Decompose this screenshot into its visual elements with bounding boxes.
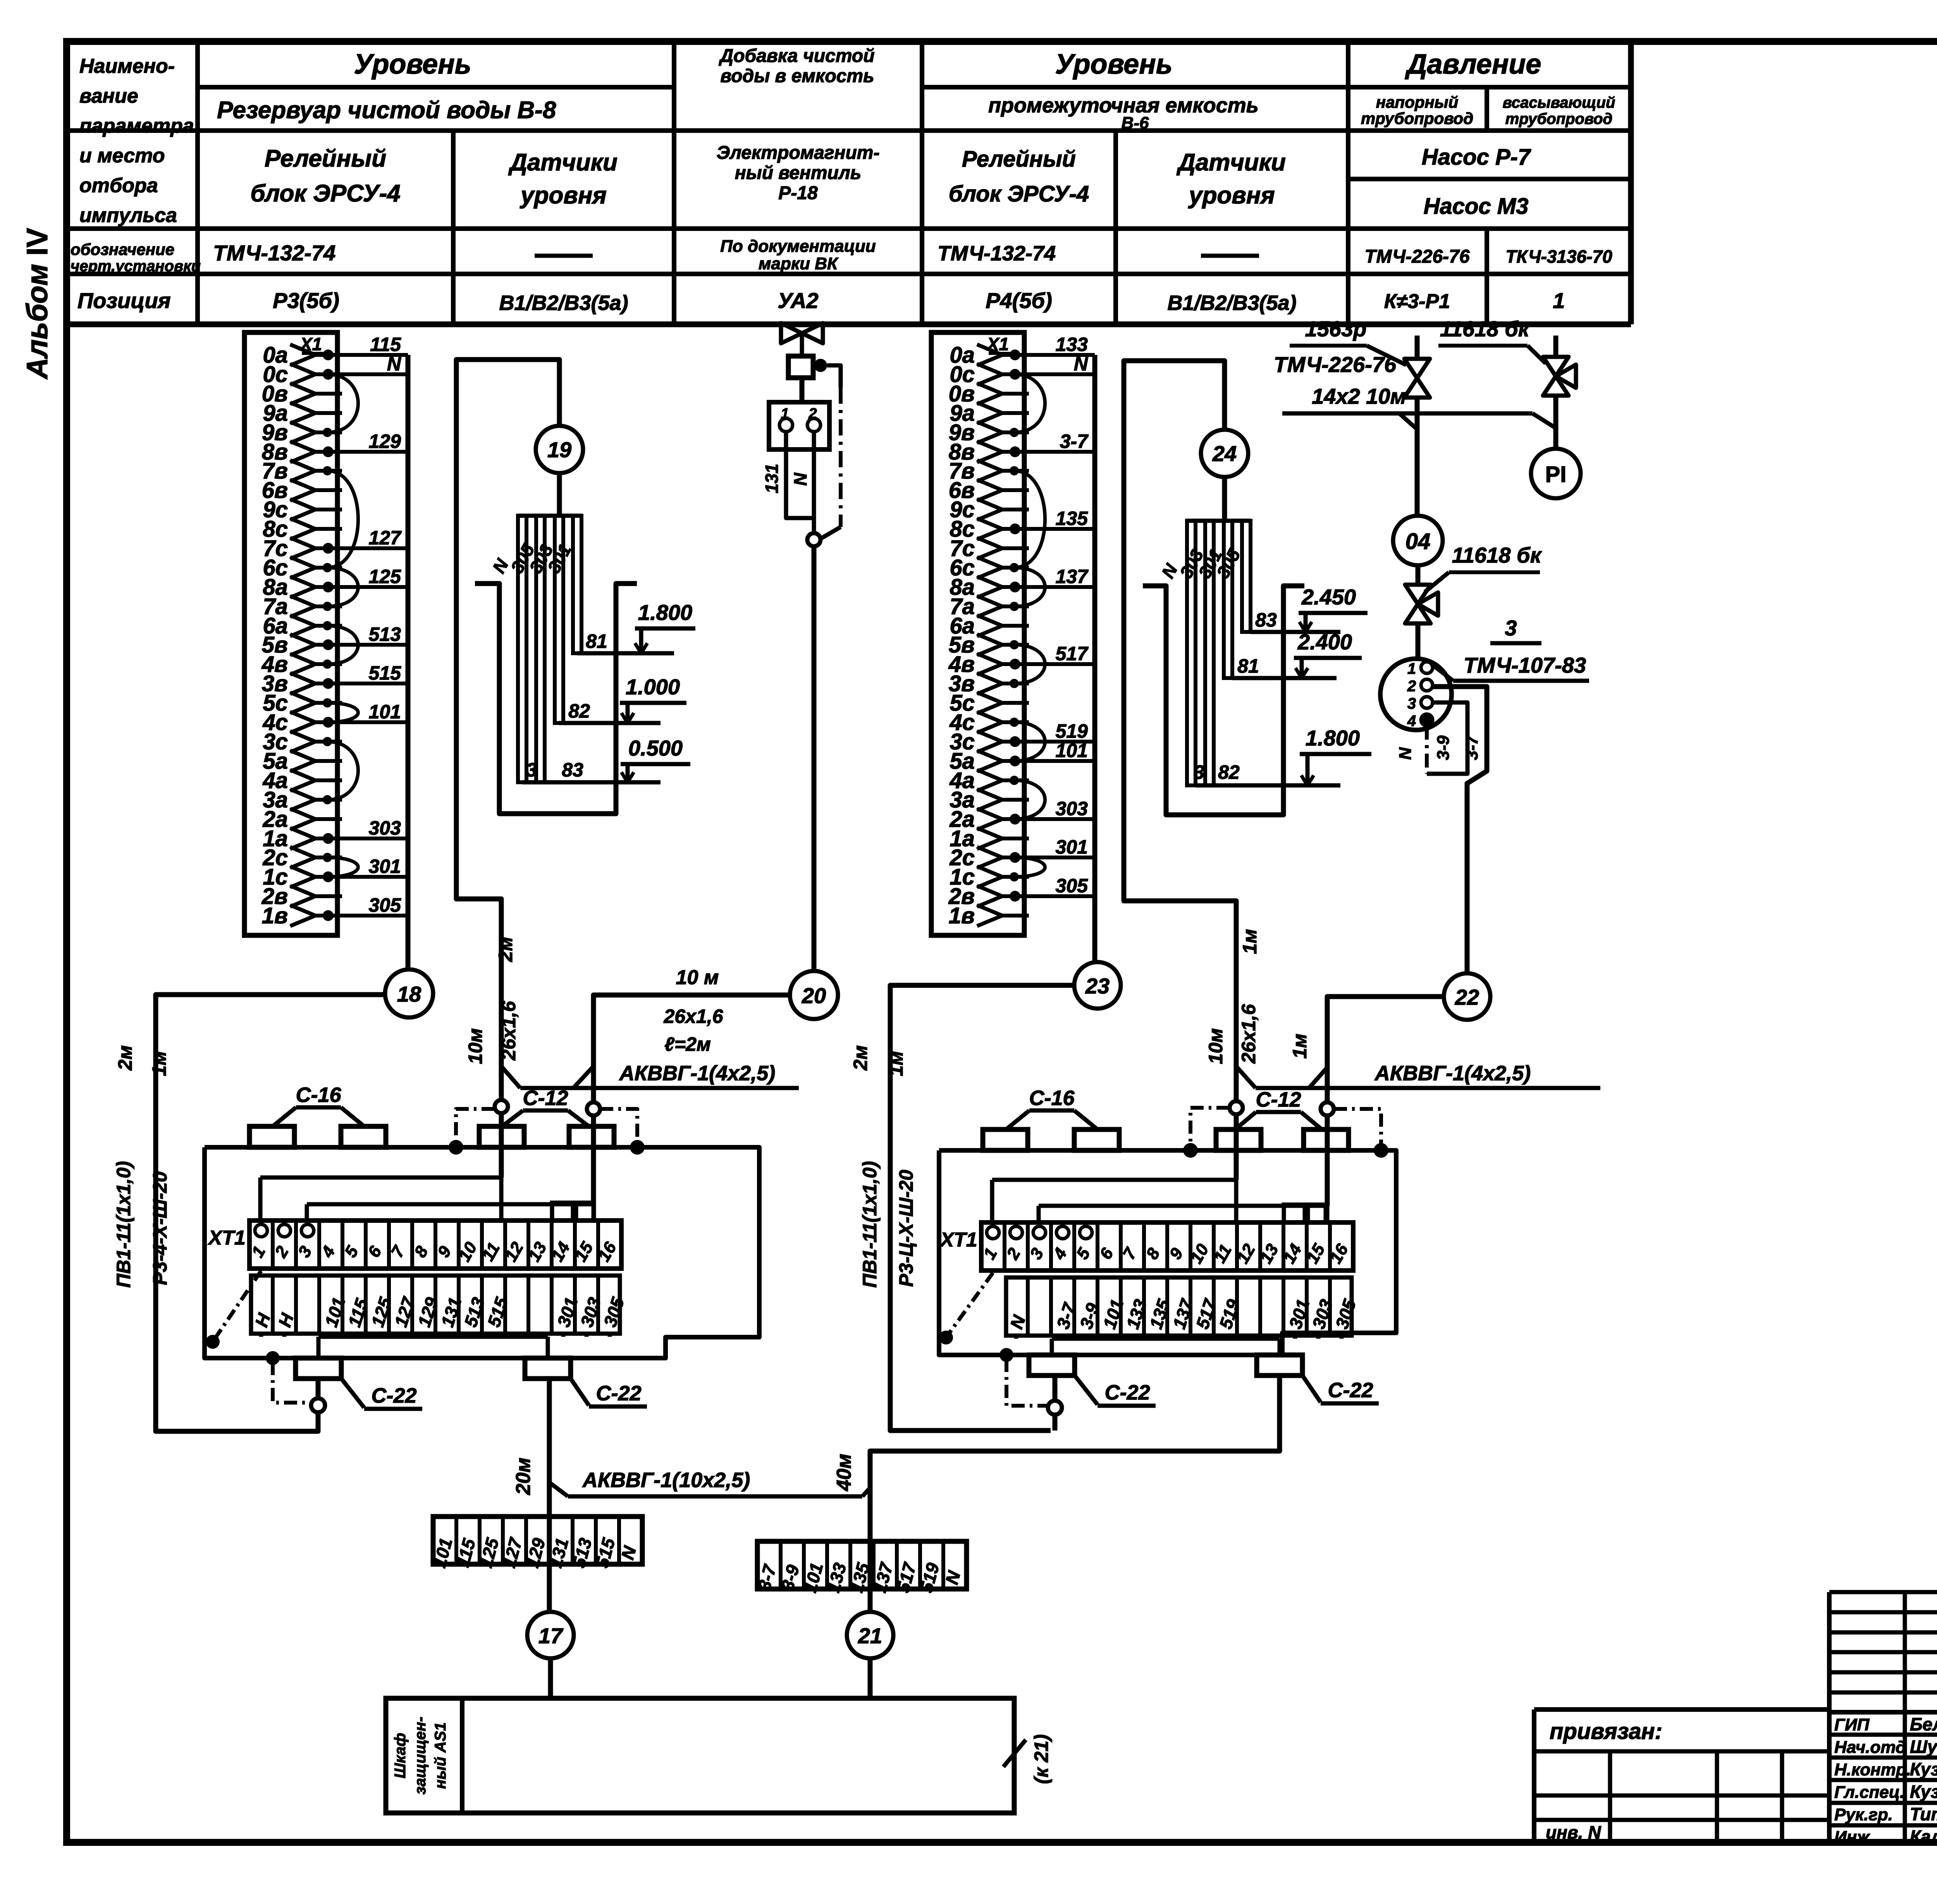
svg-text:26х1,6: 26х1,6 xyxy=(498,1000,520,1060)
cable АКВВГ-1(10х2,5) between groups xyxy=(549,1482,568,1496)
assembly XT4 enclosure outline xyxy=(205,1147,759,1358)
svg-text:ПВ1-11(1х1,0): ПВ1-11(1х1,0) xyxy=(859,1161,881,1288)
svg-text:24: 24 xyxy=(1212,441,1237,466)
sensor B-6 drop wire from node 24 xyxy=(1222,477,1227,521)
svg-text:3-7: 3-7 xyxy=(1060,430,1089,452)
svg-text:2: 2 xyxy=(1407,678,1416,695)
assembly XT5 shield dash-dot at bottom xyxy=(999,1348,1013,1362)
svg-text:2.400: 2.400 xyxy=(1297,630,1352,654)
svg-text:уровня: уровня xyxy=(520,182,607,209)
svg-text:АКВВГ-1(4х2,5): АКВВГ-1(4х2,5) xyxy=(1374,1062,1531,1085)
pressure switch item 3 ТМЧ-107-83 xyxy=(1380,659,1452,730)
svg-text:Шунский: Шунский xyxy=(1910,1737,1937,1757)
wire N from pin 4 (dash-dot) xyxy=(1425,726,1429,774)
svg-text:Насос М3: Насос М3 xyxy=(1424,194,1529,219)
svg-text:Р3-Ц-Х-Ш-20: Р3-Ц-Х-Ш-20 xyxy=(895,1170,917,1287)
svg-text:инв. N: инв. N xyxy=(1546,1822,1601,1842)
cabinet AS1 box xyxy=(386,1698,1014,1813)
valve УА2 symbol (bowtie) xyxy=(781,323,802,343)
svg-text:3: 3 xyxy=(1407,695,1416,712)
svg-text:4: 4 xyxy=(1407,713,1416,730)
svg-text:ПВ1-11(1х1,0): ПВ1-11(1х1,0) xyxy=(113,1161,134,1288)
svg-text:82: 82 xyxy=(1218,761,1240,783)
valve УА2 actuator box xyxy=(800,333,804,356)
svg-text:С-16: С-16 xyxy=(296,1083,341,1107)
svg-text:ТМЧ-132-74: ТМЧ-132-74 xyxy=(938,242,1056,265)
assembly XT4 terminal strip XT1 xyxy=(249,1221,621,1269)
assembly XT4 С-22 label left xyxy=(341,1379,364,1408)
svg-text:Датчики: Датчики xyxy=(1176,149,1286,176)
svg-text:1: 1 xyxy=(1553,288,1565,313)
svg-text:обозначение: обозначение xyxy=(71,240,174,258)
svg-text:1.800: 1.800 xyxy=(638,600,692,625)
wire УА2 box to terminal box xyxy=(800,378,805,402)
svg-text:и место: и место xyxy=(79,145,165,167)
junction circle on sensor cable at XT4 xyxy=(495,1100,508,1113)
assembly XT4 shield dash-dot at bottom xyxy=(266,1351,280,1365)
svg-text:1м: 1м xyxy=(885,1051,907,1076)
shield circle below XT5 xyxy=(1048,1401,1062,1415)
svg-text:АКВВГ-1(10х2,5): АКВВГ-1(10х2,5) xyxy=(582,1468,750,1492)
node 18 circle xyxy=(385,969,433,1017)
assembly XT5 enclosure outline xyxy=(939,1150,1396,1355)
svg-text:АКВВГ-1(4х2,5): АКВВГ-1(4х2,5) xyxy=(619,1062,775,1085)
svg-text:517: 517 xyxy=(1056,643,1089,665)
svg-text:С-22: С-22 xyxy=(1328,1379,1373,1402)
junction dot at УА2 actuator xyxy=(814,359,827,372)
svg-text:11618 бк: 11618 бк xyxy=(1440,317,1530,341)
svg-text:Р4(5б): Р4(5б) xyxy=(986,288,1052,313)
svg-text:21: 21 xyxy=(858,1623,882,1648)
node 19 circle (B-8) xyxy=(536,426,583,473)
wire 131 from pin 1 xyxy=(786,432,814,518)
cable from sensor 24 into XT5 xyxy=(1230,1101,1243,1114)
assembly XT5 wire tag band below strip xyxy=(1006,1277,1352,1336)
svg-text:3: 3 xyxy=(1194,761,1204,783)
node 21 circle xyxy=(847,1612,893,1658)
assembly XT5 drops from collector to bottom tabs xyxy=(1050,1339,1054,1355)
svg-text:81: 81 xyxy=(586,630,607,652)
svg-text:ный вентиль: ный вентиль xyxy=(735,163,861,183)
svg-text:127: 127 xyxy=(369,527,402,549)
wire node 17 to cabinet AS1 xyxy=(548,1658,553,1698)
svg-text:125: 125 xyxy=(369,566,402,587)
svg-text:129: 129 xyxy=(369,430,401,452)
svg-text:26х1,6: 26х1,6 xyxy=(664,1005,724,1027)
svg-text:ный AS1: ный AS1 xyxy=(432,1722,449,1789)
svg-text:04: 04 xyxy=(1405,529,1431,554)
svg-text:515: 515 xyxy=(369,662,402,684)
svg-text:131: 131 xyxy=(762,464,782,494)
wire 3-9 from pin 3 xyxy=(1427,702,1467,774)
node 24 circle (B-6) xyxy=(1201,430,1248,477)
svg-text:трубопровод: трубопровод xyxy=(1361,109,1473,127)
cable from node 23 down (left of XT5) xyxy=(890,985,1074,1431)
pressure gauge PI xyxy=(1531,449,1581,498)
svg-text:ТМЧ-132-74: ТМЧ-132-74 xyxy=(213,241,335,265)
assembly XT5 С-22 label right xyxy=(1302,1375,1321,1402)
svg-text:18: 18 xyxy=(397,982,421,1006)
svg-text:Электромагнит-: Электромагнит- xyxy=(717,143,880,163)
svg-text:В1/В2/В3(5а): В1/В2/В3(5а) xyxy=(499,291,628,315)
svg-text:марки ВК: марки ВК xyxy=(759,254,839,273)
svg-text:Р3-4-Х-Ш-20: Р3-4-Х-Ш-20 xyxy=(149,1171,171,1285)
cable 40м from XT5 to node 21 xyxy=(870,1375,1280,1611)
assembly XT5 dash-dot shield links at top xyxy=(1190,1108,1230,1147)
svg-text:Н.контр.: Н.контр. xyxy=(1834,1760,1911,1779)
svg-text:(к 21): (к 21) xyxy=(1030,1734,1052,1784)
svg-text:всасывающий: всасывающий xyxy=(1503,94,1615,111)
svg-text:ТМЧ-226-76: ТМЧ-226-76 xyxy=(1274,352,1397,377)
svg-text:Гл.спец.: Гл.спец. xyxy=(1834,1783,1904,1802)
node 23 circle xyxy=(1074,962,1121,1009)
svg-text:С-12: С-12 xyxy=(1256,1088,1301,1111)
svg-text:133: 133 xyxy=(1056,334,1088,355)
svg-text:20: 20 xyxy=(802,983,826,1008)
svg-text:1в: 1в xyxy=(262,903,288,928)
svg-text:Насос Р-7: Насос Р-7 xyxy=(1422,145,1531,170)
svg-text:301: 301 xyxy=(1056,836,1088,858)
svg-text:Давление: Давление xyxy=(1405,49,1541,80)
sensor B-8 electrode bars xyxy=(518,516,582,782)
svg-text:137: 137 xyxy=(1056,566,1089,587)
node 22 circle xyxy=(1444,973,1490,1020)
assembly XT4 internal distribution wire 1 xyxy=(260,1176,501,1180)
svg-text:ГИП: ГИП xyxy=(1834,1715,1870,1734)
assembly XT4 collector wire below tags xyxy=(318,1335,548,1339)
svg-text:14х2 10м: 14х2 10м xyxy=(1312,384,1406,408)
assembly XT5 internal distribution wire 1 xyxy=(992,1178,1236,1182)
svg-text:Уровень: Уровень xyxy=(1055,49,1173,80)
svg-text:блок ЭРСУ-4: блок ЭРСУ-4 xyxy=(949,181,1089,207)
svg-text:По документации: По документации xyxy=(720,237,876,256)
sensor B-6 electrode bars xyxy=(1187,521,1251,785)
cable from node 22 into XT5 xyxy=(1327,997,1444,1102)
wire 3-7 from pin 2 to node 22 xyxy=(1433,687,1487,973)
assembly XT5 small tabs above terminals 14-15 xyxy=(1284,1205,1305,1222)
svg-text:1м: 1м xyxy=(1289,1034,1311,1059)
svg-text:трубопровод: трубопровод xyxy=(1505,110,1613,127)
assembly XT5 top connector tabs xyxy=(983,1129,1028,1150)
svg-text:101: 101 xyxy=(1056,740,1088,761)
svg-text:303: 303 xyxy=(1056,798,1088,819)
svg-text:83: 83 xyxy=(562,759,583,781)
svg-text:С-12: С-12 xyxy=(523,1086,568,1110)
assembly XT5 terminal screws (open circles) xyxy=(987,1226,999,1239)
svg-text:Уровень: Уровень xyxy=(354,49,471,80)
junction circle on node 20 cable xyxy=(587,1102,600,1116)
svg-text:К≠3-Р1: К≠3-Р1 xyxy=(1384,290,1450,313)
svg-text:81: 81 xyxy=(1237,655,1259,677)
svg-text:1.000: 1.000 xyxy=(626,675,680,699)
svg-text:Калмыков: Калмыков xyxy=(1910,1827,1937,1847)
wire N from pin 2 xyxy=(812,432,816,533)
svg-text:1м: 1м xyxy=(1239,929,1261,954)
cable from node 18 down the left side xyxy=(156,995,385,1431)
title block main grid xyxy=(1534,1592,1937,1842)
svg-text:Добавка чистой: Добавка чистой xyxy=(718,46,874,66)
svg-text:ХТ1: ХТ1 xyxy=(207,1227,245,1249)
svg-text:Кузнецов: Кузнецов xyxy=(1910,1782,1937,1802)
svg-text:отбора: отбора xyxy=(79,174,158,197)
svg-text:513: 513 xyxy=(369,623,401,645)
wire node 21 to cabinet AS1 xyxy=(868,1658,873,1698)
svg-text:N: N xyxy=(1074,353,1088,375)
sensor B-8 drop wire from node 19 xyxy=(557,473,562,516)
svg-text:Кузнецов: Кузнецов xyxy=(1910,1759,1937,1779)
svg-text:N: N xyxy=(790,473,810,486)
cable АКВВГ-1(4х2,5) right xyxy=(1236,1066,1256,1088)
svg-text:Датчики: Датчики xyxy=(508,149,618,176)
sensor group B-6 wiring to node 24 xyxy=(1124,361,1236,1101)
svg-text:Альбом IV: Альбом IV xyxy=(21,228,54,380)
svg-text:0.500: 0.500 xyxy=(628,736,683,760)
assembly XT4 shield junction dots on top edge xyxy=(449,1140,463,1155)
bus wire from X1 left to node 18 xyxy=(406,355,411,969)
three-way valve (всасывающий) xyxy=(1553,336,1559,358)
assembly XT5 dash-dot diagonal from terminal 1 xyxy=(946,1273,993,1338)
assembly XT4 wire tag band below strip xyxy=(251,1276,620,1334)
svg-text:Релейный: Релейный xyxy=(962,146,1076,172)
svg-text:N: N xyxy=(1396,747,1415,760)
svg-text:17: 17 xyxy=(538,1623,564,1648)
svg-text:Рук.гр.: Рук.гр. xyxy=(1834,1805,1893,1824)
svg-text:С-22: С-22 xyxy=(371,1384,416,1407)
svg-text:519: 519 xyxy=(1056,720,1088,742)
svg-text:301: 301 xyxy=(369,856,401,877)
three-way valve (lower) xyxy=(1405,585,1431,604)
assembly XT5 terminal strip XT1 xyxy=(981,1222,1353,1270)
assembly XT4 terminal screws (open circles) xyxy=(255,1224,267,1237)
cable АКВВГ-1(4х2,5) left xyxy=(501,1066,520,1088)
sensor B-8 tank bracket xyxy=(475,584,637,814)
svg-text:Титов: Титов xyxy=(1910,1804,1937,1824)
assembly XT5 internal distribution wire 2 xyxy=(1039,1204,1327,1208)
svg-text:3: 3 xyxy=(526,759,537,781)
svg-text:защищен-: защищен- xyxy=(412,1717,429,1795)
svg-text:26х1,6: 26х1,6 xyxy=(1238,1004,1259,1064)
svg-text:ℓ=2м: ℓ=2м xyxy=(664,1033,711,1055)
terminal block X1 left (reservoir B-8) outline xyxy=(244,332,337,935)
svg-text:82: 82 xyxy=(568,700,590,722)
svg-text:10м: 10м xyxy=(1205,1028,1227,1064)
mechanical link wire (dash-dot) from УА2 xyxy=(827,365,841,387)
pipe 04 to lower valve xyxy=(1416,565,1421,585)
cable 20м from XT4 to node 17 xyxy=(547,1379,552,1611)
assembly XT4 dash-dot shield links at top xyxy=(456,1109,495,1144)
svg-text:напорный: напорный xyxy=(1376,93,1459,111)
junction circle on node 22 cable xyxy=(1321,1102,1334,1116)
svg-text:N: N xyxy=(387,353,401,375)
svg-text:ТМЧ-226-76: ТМЧ-226-76 xyxy=(1364,246,1469,267)
svg-text:параметра: параметра xyxy=(79,115,194,137)
svg-text:1: 1 xyxy=(1407,660,1416,677)
X1 left (reservoir B-8) bridge hooks xyxy=(327,374,358,877)
svg-text:83: 83 xyxy=(1255,609,1277,631)
X1 right (tank B-6) bridge hooks xyxy=(1014,374,1045,877)
svg-text:импульса: импульса xyxy=(79,204,177,227)
node 20 circle xyxy=(790,971,838,1019)
assembly XT5 shield junction dots on top edge xyxy=(1183,1143,1198,1158)
assembly XT4 bottom connector tabs С-22 xyxy=(296,1358,341,1379)
svg-text:1: 1 xyxy=(781,406,789,422)
svg-text:Инж.: Инж. xyxy=(1834,1828,1874,1847)
svg-text:305: 305 xyxy=(1056,875,1089,897)
node 17 circle xyxy=(527,1612,574,1658)
assembly XT4 С-22 label right xyxy=(571,1379,589,1405)
assembly XT5 collector wire below tags xyxy=(1052,1337,1280,1341)
svg-text:2м: 2м xyxy=(850,1045,871,1071)
pipe to PI xyxy=(1553,395,1559,449)
svg-text:В-6: В-6 xyxy=(1122,114,1149,133)
svg-text:Р3(5б): Р3(5б) xyxy=(273,288,339,313)
svg-text:ХТ1: ХТ1 xyxy=(939,1229,977,1251)
svg-text:2м: 2м xyxy=(495,937,516,962)
svg-text:С-22: С-22 xyxy=(1104,1381,1150,1404)
svg-text:Шкаф: Шкаф xyxy=(392,1733,409,1778)
parameter table grid xyxy=(67,41,1631,324)
svg-text:20м: 20м xyxy=(512,1458,535,1495)
assembly XT4 small tabs above terminals 14-15 xyxy=(552,1203,573,1221)
svg-text:11618 бк: 11618 бк xyxy=(1452,543,1542,567)
bus wire from X1 right to node 23 xyxy=(1092,355,1098,962)
svg-text:3: 3 xyxy=(1505,616,1517,640)
junction circle below УА2 xyxy=(807,533,821,546)
svg-text:вание: вание xyxy=(79,85,138,107)
svg-text:22: 22 xyxy=(1455,985,1479,1009)
svg-text:115: 115 xyxy=(370,334,401,355)
sensor group B-8 wiring to node 19 xyxy=(456,360,559,1100)
title block upper sign table xyxy=(1829,1592,1937,1842)
svg-text:1563р: 1563р xyxy=(1305,317,1367,341)
svg-text:воды в емкость: воды в емкость xyxy=(720,66,874,86)
svg-text:10м: 10м xyxy=(464,1028,486,1064)
svg-text:УА2: УА2 xyxy=(778,288,818,313)
assembly XT5 С-22 label left xyxy=(1075,1375,1098,1405)
svg-text:135: 135 xyxy=(1056,508,1089,529)
assembly XT5 bottom connector tabs С-22 xyxy=(1029,1355,1075,1375)
wire tag strip above node 17 xyxy=(433,1517,642,1564)
valve (напорный трубопровод) xyxy=(1415,336,1420,360)
svg-text:Р-18: Р-18 xyxy=(778,183,818,203)
svg-text:3-9: 3-9 xyxy=(1434,735,1453,760)
svg-text:10 м: 10 м xyxy=(676,966,719,989)
svg-text:уровня: уровня xyxy=(1188,182,1275,209)
svg-text:3-7: 3-7 xyxy=(1462,735,1481,760)
svg-text:PI: PI xyxy=(1545,462,1567,487)
svg-text:23: 23 xyxy=(1085,974,1110,998)
svg-text:Резервуар чистой воды В-8: Резервуар чистой воды В-8 xyxy=(217,97,556,124)
svg-text:ТМЧ-107-83: ТМЧ-107-83 xyxy=(1464,653,1586,677)
wire tag strip above node 21 xyxy=(757,1541,967,1589)
svg-text:305: 305 xyxy=(369,894,402,916)
assembly XT4 internal distribution wire 2 xyxy=(307,1202,593,1207)
wire junction to node 20 xyxy=(812,546,817,971)
sensor B-6 tank bracket xyxy=(1143,586,1304,815)
svg-text:40м: 40м xyxy=(833,1454,855,1491)
svg-text:С-16: С-16 xyxy=(1029,1086,1075,1110)
terminal block X1 right (tank B-6) outline xyxy=(931,332,1024,935)
svg-text:блок ЭРСУ-4: блок ЭРСУ-4 xyxy=(250,180,400,207)
svg-text:Наимено-: Наимено- xyxy=(79,55,175,77)
svg-text:1м: 1м xyxy=(148,1051,170,1076)
svg-text:101: 101 xyxy=(369,701,401,723)
svg-text:Нач.отд: Нач.отд xyxy=(1834,1738,1906,1757)
svg-text:С-22: С-22 xyxy=(596,1382,641,1405)
svg-text:Белоус: Белоус xyxy=(1910,1714,1937,1734)
node 04 circle xyxy=(1393,516,1443,565)
cable from node 20 into XT4 xyxy=(593,995,790,1102)
assembly XT4 dash-dot diagonal from terminal 1 xyxy=(213,1271,261,1342)
svg-text:19: 19 xyxy=(547,437,571,462)
svg-text:привязан:: привязан: xyxy=(1550,1719,1662,1744)
svg-text:Релейный: Релейный xyxy=(265,145,386,172)
assembly XT4 top connector tabs xyxy=(249,1126,294,1147)
svg-text:ТКЧ-3136-70: ТКЧ-3136-70 xyxy=(1505,246,1612,267)
shield circle below XT4 xyxy=(311,1398,325,1412)
svg-text:303: 303 xyxy=(369,817,401,839)
pipe valve to pressure switch xyxy=(1416,623,1421,660)
svg-text:черт.установки: черт.установки xyxy=(71,258,201,275)
svg-text:1в: 1в xyxy=(949,903,975,928)
svg-text:В1/В2/В3(5а): В1/В2/В3(5а) xyxy=(1167,291,1296,315)
svg-text:2м: 2м xyxy=(114,1045,136,1071)
assembly XT4 drops from collector to bottom tabs xyxy=(317,1337,321,1358)
svg-text:1.800: 1.800 xyxy=(1306,726,1360,750)
pipe valve to node 04 xyxy=(1415,397,1420,516)
УА2 terminal box with pins 1,2 xyxy=(769,402,829,449)
cabinet AS1 break mark (к 21) xyxy=(1003,1740,1026,1767)
svg-text:Позиция: Позиция xyxy=(77,288,171,313)
svg-text:2.450: 2.450 xyxy=(1301,585,1356,609)
svg-text:2: 2 xyxy=(808,406,817,422)
